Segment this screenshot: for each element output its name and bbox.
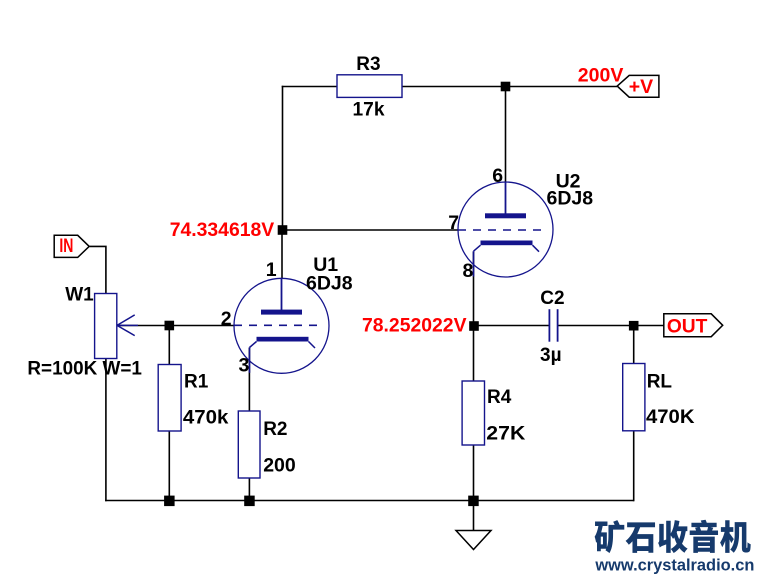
svg-text:470K: 470K <box>646 406 695 428</box>
svg-text:17k: 17k <box>353 100 385 121</box>
svg-text:OUT: OUT <box>667 316 708 338</box>
wire top-left vertical (R3 left to node A) <box>282 86 284 230</box>
junction rail R2 <box>244 496 255 507</box>
wire R2 bottom to rail <box>248 478 250 501</box>
wire RL bottom to rail <box>633 431 635 502</box>
svg-text:R4: R4 <box>487 387 512 408</box>
triode U1 cathode <box>250 337 316 373</box>
svg-text:2: 2 <box>221 308 232 330</box>
junction node A <box>278 225 288 235</box>
svg-text:6: 6 <box>492 165 503 187</box>
svg-text:200: 200 <box>263 455 296 477</box>
wire U1 grid pin 2 from wiper node <box>117 325 234 327</box>
svg-text:7: 7 <box>448 212 459 234</box>
wire U2 cathode pin 8 down to node C <box>473 252 475 327</box>
junction node D (C2/RL/OUT) <box>629 321 639 331</box>
resistor RL body <box>623 364 645 431</box>
svg-text:78.252022V: 78.252022V <box>362 315 467 337</box>
triode U1 grid (dashed) <box>234 324 318 326</box>
capacitor C2 plates <box>549 309 557 342</box>
svg-text:R1: R1 <box>184 372 209 393</box>
triode U2 envelope circle <box>458 182 553 277</box>
svg-text:RL: RL <box>647 371 673 392</box>
svg-text:3: 3 <box>239 355 250 377</box>
wire W1 bottom to rail <box>105 359 107 502</box>
ground symbol <box>456 531 491 550</box>
wire ground stem <box>473 501 475 531</box>
wire C2 right plate to node D and OUT <box>558 325 664 327</box>
wire node C to C2 left plate <box>474 325 549 327</box>
wire U2 pin 6 (plate lead down) <box>505 87 507 183</box>
wire R1 bottom to rail <box>168 431 170 501</box>
wire bottom ground rail <box>105 500 634 502</box>
resistor R3 body <box>337 75 402 98</box>
junction node B (wiper/R1/grid U1) <box>165 321 175 331</box>
svg-text:R2: R2 <box>263 419 287 440</box>
wire node D down to RL <box>633 326 635 364</box>
svg-text:6DJ8: 6DJ8 <box>547 188 594 210</box>
triode U1 plate (anode) <box>261 278 302 314</box>
wire node C down to R4 <box>473 326 475 381</box>
potentiometer W1 body <box>95 294 117 359</box>
svg-text:74.334618V: 74.334618V <box>170 219 275 241</box>
svg-text:8: 8 <box>463 260 474 282</box>
wire U1 cathode pin 3 down to R2 <box>248 348 250 412</box>
resistor R1 body <box>158 365 181 432</box>
wire IN to W1 top <box>90 246 106 293</box>
resistor R4 body <box>462 381 484 445</box>
junction node C (U2 cathode/R4/C2) <box>469 321 479 331</box>
port flag OUT <box>664 314 723 337</box>
port flag IN <box>54 235 89 257</box>
triode U2 plate (anode) <box>485 182 526 218</box>
triode U1 envelope circle <box>234 278 329 373</box>
svg-text:R=100K W=1: R=100K W=1 <box>27 359 142 380</box>
power flag +V <box>617 75 659 97</box>
wire node A down to U1 plate pin 1 <box>281 230 283 279</box>
svg-text:6DJ8: 6DJ8 <box>306 272 353 294</box>
svg-text:3µ: 3µ <box>540 345 562 366</box>
wire top horizontal to R3 <box>282 86 337 88</box>
wire R3 right to +V <box>402 86 617 88</box>
svg-text:R3: R3 <box>356 54 380 75</box>
junction rail ground <box>468 496 479 507</box>
wire R4 bottom to rail <box>473 445 475 501</box>
svg-text:200V: 200V <box>578 65 624 87</box>
junction rail R1 <box>164 496 175 507</box>
resistor R2 body <box>238 411 260 478</box>
svg-text:27K: 27K <box>486 423 525 445</box>
triode U2 cathode <box>474 241 540 277</box>
wire node B down to R1 <box>168 326 170 366</box>
svg-text:www.crystalradio.cn: www.crystalradio.cn <box>594 557 754 575</box>
wire node A to U2 grid pin 7 <box>283 229 459 231</box>
svg-text:W1: W1 <box>65 285 94 306</box>
svg-text:470k: 470k <box>183 407 229 429</box>
svg-text:1: 1 <box>266 259 277 281</box>
svg-text:C2: C2 <box>540 288 564 309</box>
svg-text:IN: IN <box>59 236 73 257</box>
watermark logo kuangshi shouyinji <box>595 520 751 553</box>
svg-text:+V: +V <box>629 76 653 98</box>
potentiometer W1 wiper arrow <box>117 315 138 336</box>
triode U2 grid (dashed) <box>458 229 542 231</box>
junction node +V rail / U2 plate <box>501 82 511 92</box>
